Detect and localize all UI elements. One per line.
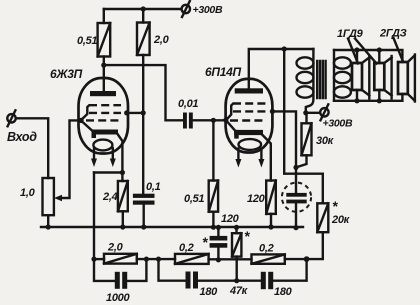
- transformer primary spine: [306, 49, 314, 113]
- svg-text:2,0: 2,0: [107, 242, 124, 254]
- potentiometer 1,0: [43, 178, 54, 215]
- svg-text:120: 120: [247, 193, 266, 205]
- cathode V2: [234, 130, 263, 135]
- wiper arrow: [54, 195, 62, 201]
- svg-text:0,51: 0,51: [77, 35, 97, 47]
- node C180a/row: [156, 257, 161, 262]
- g3 internal lead V1: [81, 105, 89, 120]
- capacitor 0,01 (coupling): [183, 113, 187, 129]
- node R120/bus: [268, 224, 273, 229]
- wire row segment right: [285, 258, 307, 260]
- node grid-leak tap: [211, 118, 216, 123]
- resistor 120 (cathode V2): [266, 181, 276, 214]
- svg-text:180: 180: [274, 286, 293, 298]
- node R2,4/bus: [120, 224, 125, 229]
- wire row segment mid: [209, 258, 252, 260]
- heater V2: [239, 139, 262, 150]
- svg-text:2,0: 2,0: [153, 34, 170, 46]
- speaker 1GD9 a: [356, 50, 358, 101]
- svg-text:0,1: 0,1: [146, 181, 161, 193]
- node sp2 top: [377, 47, 382, 52]
- svg-text:1000: 1000: [106, 292, 130, 304]
- wire C0,01 to grid V2: [193, 119, 226, 121]
- resistor 0,2* (feedback 1): [175, 254, 209, 264]
- svg-text:0,2: 0,2: [259, 243, 274, 255]
- terminal +300V (2nd): [320, 108, 328, 116]
- input terminal: [7, 114, 15, 122]
- node bypass-cap/bus: [293, 225, 298, 230]
- wire g2 V1 to screen line: [127, 112, 144, 114]
- secondary loop 1: [334, 57, 351, 68]
- node row left: [91, 257, 96, 262]
- node R0,51/bus: [211, 225, 216, 230]
- svg-text:1ГД9: 1ГД9: [337, 28, 364, 40]
- transformer core: [317, 61, 325, 98]
- svg-text:0,51: 0,51: [184, 193, 204, 205]
- node g2 exit V1: [124, 110, 129, 115]
- svg-text:180: 180: [200, 286, 219, 298]
- node pot/bus: [46, 224, 51, 229]
- wire cap to ground bus: [295, 203, 297, 227]
- svg-text:*: *: [202, 234, 208, 250]
- grid g1 V1: [86, 119, 121, 121]
- secondary loop 2: [334, 72, 351, 83]
- wire pot to ground bus: [47, 215, 49, 227]
- cathode V1: [92, 130, 119, 135]
- wire C180a to C180b: [198, 280, 261, 282]
- svg-text:*: *: [244, 228, 250, 244]
- terminal +300V (top): [182, 5, 190, 13]
- svg-text:0,01: 0,01: [178, 98, 198, 110]
- wire g1 V1 to pot wiper: [60, 120, 81, 198]
- node cathode V1: [120, 170, 125, 175]
- capacitor 0,1 (screen bypass V1): [133, 194, 155, 198]
- svg-text:30к: 30к: [316, 135, 335, 147]
- secondary loop 3: [334, 86, 351, 97]
- node g2/screen line V1: [141, 110, 146, 115]
- node sp2 bottom: [377, 98, 382, 103]
- node g1 exit V1: [78, 118, 83, 123]
- heater V1: [93, 140, 112, 151]
- wire cathode node to feedback drop: [94, 171, 122, 173]
- node anode V1 / coupling: [101, 63, 106, 68]
- tube V2 envelope: [226, 79, 273, 153]
- svg-text:6Ж3П: 6Ж3П: [50, 67, 83, 81]
- feedback wire anode to 20k: [284, 49, 323, 203]
- svg-text:+300В: +300В: [193, 4, 223, 16]
- svg-text:120: 120: [221, 213, 240, 225]
- transformer secondary spine: [333, 50, 335, 101]
- resistor 47k: [235, 227, 237, 233]
- speaker 2GD3: [398, 62, 408, 94]
- node g1 entry V2: [223, 118, 228, 123]
- resistor 0,2 (feedback 2): [252, 254, 285, 263]
- wire coupling anode V1 to C 0,01: [104, 65, 183, 120]
- leader lines 1GD9: [348, 39, 377, 64]
- tube V1 envelope: [79, 78, 129, 154]
- svg-text:1,0: 1,0: [20, 187, 36, 199]
- resistor 2,0 (screen dropper V1): [142, 9, 144, 23]
- speaker top wire: [334, 50, 402, 62]
- grid g3 V1: [89, 104, 121, 106]
- heater arrow V2 left: [237, 149, 239, 160]
- ground bus: [41, 226, 303, 228]
- heater arrow V1 right: [112, 148, 114, 159]
- resistor 0,51 (grid leak V2): [212, 120, 214, 180]
- svg-text:Вход: Вход: [7, 130, 37, 144]
- resistor 30k: [305, 113, 307, 124]
- resistor 20k: [317, 203, 328, 232]
- wire to terminal: [306, 112, 320, 114]
- grid g2 V2: [233, 110, 266, 112]
- node sp1 bottom: [354, 98, 359, 103]
- feedback row left wire: [94, 258, 104, 260]
- node C1000/row: [144, 257, 149, 262]
- primary loop 1: [297, 57, 314, 68]
- wire cathode V2 down: [263, 135, 271, 181]
- grid g2 V1: [89, 112, 121, 114]
- leader line 2GD3: [394, 38, 403, 61]
- node C0,1/bus: [141, 224, 146, 229]
- speaker bottom wire: [334, 94, 402, 101]
- capacitor 180 (first): [159, 259, 186, 281]
- capacitor 1000: [94, 259, 115, 281]
- electrolytic bypass cap (dashed circle): [282, 183, 311, 212]
- node row/R20k/C180b: [304, 256, 310, 262]
- svg-text:0,2: 0,2: [179, 242, 194, 254]
- anode V1: [90, 91, 116, 96]
- wire anode V2 to transformer: [249, 49, 314, 88]
- node rail/R2 junction: [141, 6, 146, 11]
- speaker 1GD9 b: [378, 50, 380, 101]
- node R47k/C180 link: [234, 278, 239, 283]
- wire feedback drop (crosses bus): [93, 173, 95, 260]
- node screen/30k: [293, 165, 298, 170]
- node g2 exit V2: [270, 109, 275, 114]
- cathode internal lead V2: [226, 120, 235, 130]
- cathode internal lead V1: [81, 120, 92, 130]
- wire row segment: [137, 258, 175, 260]
- svg-text:*: *: [332, 198, 338, 214]
- svg-text:6П14П: 6П14П: [205, 65, 241, 79]
- capacitor 120 (below bus): [217, 227, 219, 236]
- svg-text:47к: 47к: [229, 285, 249, 297]
- capacitor 180 (second): [261, 272, 266, 289]
- grid g1 V2: [230, 119, 266, 121]
- node R47k/bus: [234, 225, 239, 230]
- node anode feedback tap: [282, 46, 287, 51]
- heater arrow V1 left: [93, 148, 95, 159]
- wire input to pot: [16, 118, 48, 178]
- node C120/bus: [216, 225, 221, 230]
- svg-text:20к: 20к: [331, 214, 351, 226]
- primary loop 2: [297, 72, 314, 83]
- resistor 2,0 (feedback): [104, 254, 137, 264]
- resistor 0,51 (anode load V1): [103, 9, 105, 23]
- node C120/row: [216, 257, 221, 262]
- g3 internal lead V2: [226, 104, 233, 120]
- anode V2: [235, 88, 263, 93]
- wire g2 V2 to screen node: [272, 111, 296, 193]
- heater arrow V2 right: [260, 149, 262, 160]
- grid g3 V2: [233, 102, 266, 104]
- resistor 2,4 (cathode V1): [121, 173, 123, 182]
- +300V rail (top left): [104, 8, 181, 10]
- svg-text:+300В: +300В: [323, 118, 353, 130]
- wire cathode V1 down: [118, 134, 123, 173]
- primary loop 3: [297, 86, 314, 97]
- node +300V (2nd): [303, 110, 308, 115]
- node sp1 top: [354, 47, 359, 52]
- svg-text:2,4: 2,4: [102, 191, 118, 203]
- wire screen line V1 (from 2,0 down to 0,1): [142, 55, 144, 194]
